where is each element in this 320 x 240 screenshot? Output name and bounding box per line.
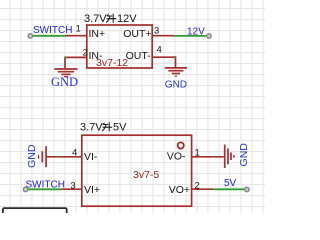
wire SWITCH to pin 1 [30,35,65,37]
svg-text:GND: GND [238,143,250,167]
node open end dot [245,187,250,192]
svg-text:OUT-: OUT- [126,50,152,62]
wire pin 2 to 5V [213,188,246,190]
svg-text:3: 3 [154,26,159,37]
svg-text:GND: GND [26,144,38,168]
ground symbol (earth) [165,68,187,76]
pin 4 of U2 [47,156,82,158]
ground symbol (earth, pointing left) [39,146,47,167]
svg-text:1: 1 [76,23,81,34]
svg-text:GND: GND [51,75,78,89]
svg-text:3.7V: 3.7V [80,121,103,133]
pin 1 of U1 [66,35,87,37]
svg-text:VO+: VO+ [169,184,190,196]
svg-text:GND: GND [165,80,187,91]
svg-text:IN+: IN+ [89,28,106,40]
svg-text:5V: 5V [224,178,237,189]
svg-text:VI-: VI- [84,151,98,163]
svg-text:4: 4 [157,45,162,56]
ground symbol (earth) [54,69,77,77]
pin 3 of U2 [62,188,82,190]
pin 2 of U2 [192,188,214,190]
svg-text:2: 2 [195,180,200,191]
ground symbol (earth, pointing right) [225,145,234,169]
svg-text:VI+: VI+ [84,184,100,196]
svg-text:3.7V: 3.7V [84,13,107,25]
node open end dot [28,34,33,39]
background dialog panel (clipped at bottom edge) [3,208,67,220]
wire pin 3 to 12V [174,35,208,37]
svg-text:3: 3 [70,180,75,191]
svg-text:2: 2 [83,48,88,59]
svg-text:5V: 5V [113,121,127,133]
svg-text:SWITCH: SWITCH [26,179,65,190]
wire pin 4 to ground [175,57,177,67]
svg-text:4: 4 [72,147,77,158]
module U2 3v7-5 boost converter body [82,135,192,206]
module U2 value label 3.7V升5V [80,121,127,133]
pin 2 of U1 [65,56,87,58]
module U1 3v7-12 boost converter body [87,25,152,68]
svg-text:3v7-12: 3v7-12 [96,57,128,69]
wire pin 2 to ground [64,57,66,68]
pin 3 of U1 [152,35,174,37]
pin 1 of U2 [192,156,224,158]
svg-text:VO-: VO- [167,150,186,162]
svg-text:SWITCH: SWITCH [33,25,72,36]
node open end dot [23,187,28,192]
junction dot [57,156,59,158]
wire SWITCH to pin 3 [26,188,62,190]
svg-text:12V: 12V [117,13,137,25]
pin 4 of U1 [152,56,175,58]
junction dot [64,56,66,58]
svg-text:3v7-5: 3v7-5 [133,169,159,181]
junction dot [175,56,177,58]
svg-text:1: 1 [195,148,200,159]
junction dot [213,156,215,158]
svg-text:OUT+: OUT+ [123,28,151,40]
node open end dot [207,34,212,39]
svg-text:12V: 12V [187,26,205,37]
inversion bubble on VO- [178,142,184,148]
module U1 value label 3.7V升12V [84,13,137,25]
